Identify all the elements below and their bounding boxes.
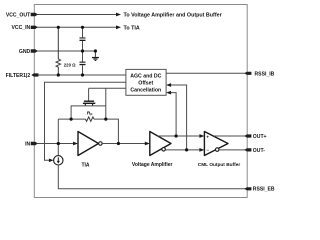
outer box [34,5,247,198]
pin VCC_OUT [31,13,38,16]
svg-text:220 Ω: 220 Ω [64,63,76,68]
transistor Q1 (AGC MOSFET) [83,101,95,107]
svg-text:IN: IN [25,141,30,147]
svg-text:Voltage Amplifier: Voltage Amplifier [132,162,173,168]
pin IN [31,142,38,145]
arrow into current source [49,159,54,163]
wire OUT- [219,149,245,151]
node dot rail minus [185,148,188,151]
svg-text:GND: GND [19,49,31,55]
wire TIA output [102,143,145,145]
wire IN line [37,143,73,145]
wire GND rail [37,50,95,52]
current source I1 [54,156,63,165]
arrow to TIA [116,25,121,29]
node dot rail plus [175,134,178,137]
wire Rf rail to input node [57,119,59,143]
capacitor C2 [80,51,86,75]
svg-text:To TIA: To TIA [124,25,140,31]
svg-text:−: − [206,147,209,152]
wire differential rail plus [158,135,201,137]
wire VCC_OUT rail [37,14,116,16]
svg-text:VCC_OUT: VCC_OUT [6,12,31,18]
wire FILTER rail [37,74,126,76]
capacitor C1 [80,27,86,51]
wire AGC feedback tap A [171,93,177,136]
arrow to Voltage Amplifier and Output Buffer [116,13,121,17]
wire MOSFET branch [71,106,106,119]
op-amp U1 TIA [78,132,99,156]
svg-text:TIA: TIA [81,163,89,169]
arrow into AGC upper [166,83,171,87]
pin VCC_IN [31,26,38,29]
wire OUT+ [214,135,245,137]
inverter bubble U2 [162,148,166,152]
svg-text:OUT-: OUT- [253,148,265,154]
wire gate drop [88,88,90,100]
node dots TIA row [57,142,60,145]
svg-text:VCC_IN: VCC_IN [12,25,31,31]
svg-text:AGC and DC: AGC and DC [130,73,161,79]
pin RSSI_EB [244,187,251,190]
pin OUT+ [244,134,251,137]
wire RSSI_EB net [58,165,245,189]
arrow into Voltage Amplifier [145,142,150,146]
op-amp U2 Voltage Amplifier [150,132,171,156]
arrow into TIA [73,142,78,146]
svg-text:OUT+: OUT+ [253,134,267,140]
svg-text:To Voltage Amplifier and Outpu: To Voltage Amplifier and Output Buffer [124,13,222,19]
wire Rf rail left segment [58,118,85,120]
node GND junction dots [81,49,84,52]
node FILTER junction dots [57,73,60,76]
svg-text:Offset: Offset [138,80,153,86]
wire current source top [57,144,59,156]
AGC block U4 [126,69,166,95]
op-amp U3 CML Output Buffer [204,132,228,156]
wire VCC_IN rail [37,26,116,28]
resistor R1 220ohm [56,27,60,75]
svg-text:RSSI_IB: RSSI_IB [255,72,275,78]
svg-text:CML Output Buffer: CML Output Buffer [198,162,241,168]
wire differential rail minus [165,149,200,151]
pin RSSI_IB [244,72,251,75]
inverter bubble U1 [99,142,103,146]
wire AGC feedback tap B [171,85,187,150]
wire Rf rail right segment [94,119,118,143]
svg-text:+: + [206,134,209,139]
arrow into AGC lower [166,91,171,95]
resistor RF [86,117,95,121]
svg-text:FILTER1|2: FILTER1|2 [6,73,31,79]
arrow into CML minus input [199,148,204,152]
wire AGC control to current source [45,82,126,160]
node VCC_IN junction dots [57,26,60,29]
pin FILTER1|2 [31,73,38,76]
arrow into CML plus input [199,134,204,138]
svg-text:RSSI_EB: RSSI_EB [253,187,275,193]
inverter bubble U3 [215,148,219,152]
svg-text:Cancellation: Cancellation [130,87,161,93]
wire AGC gate line [89,87,126,89]
wire RSSI_IB [166,72,245,74]
wire AGC tap to Rf node [105,88,107,119]
pin GND [31,49,38,52]
pin OUT- [244,148,251,151]
ground [92,51,99,61]
svg-text:RF: RF [87,111,93,117]
